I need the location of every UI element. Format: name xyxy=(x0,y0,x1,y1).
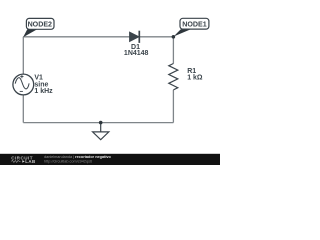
svg-text:NODE1: NODE1 xyxy=(182,21,206,29)
wire bottom xyxy=(23,122,173,124)
svg-text:LAB: LAB xyxy=(25,159,35,164)
svg-text:danielmarulanda | recortador n: danielmarulanda | recortador negativo xyxy=(44,155,112,159)
watermark bar xyxy=(0,154,220,165)
svg-text:http://circuitlab.com/c942qs6: http://circuitlab.com/c942qs6 xyxy=(44,160,92,164)
node NODE2 flag xyxy=(23,18,54,37)
diode D1 xyxy=(130,31,140,43)
wire left lower (V1 bottom to bottom-left corner) xyxy=(22,95,24,123)
wire right lower (R1 bottom to bottom wire) xyxy=(172,90,174,123)
voltage source V1 xyxy=(13,74,34,95)
wire left upper (corner to V1 top) xyxy=(22,37,24,74)
junction dot at ground xyxy=(99,121,103,125)
resistor R1 xyxy=(169,64,178,90)
svg-text:1N4148: 1N4148 xyxy=(124,50,149,57)
svg-text:1 kΩ: 1 kΩ xyxy=(187,75,203,82)
ground xyxy=(93,123,109,140)
CircuitLab logo xyxy=(11,155,35,164)
wire top (NODE2 corner to NODE1 junction) xyxy=(23,36,173,38)
wire right upper (junction to R1 top) xyxy=(172,37,174,64)
node NODE1 flag xyxy=(174,18,209,36)
svg-text:NODE2: NODE2 xyxy=(28,21,52,29)
svg-text:1 kHz: 1 kHz xyxy=(34,88,53,95)
junction dot NODE1 xyxy=(172,35,176,39)
